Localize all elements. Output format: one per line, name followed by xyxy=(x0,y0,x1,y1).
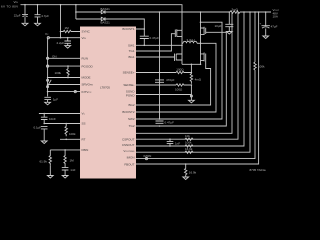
ground C3 xyxy=(45,102,51,105)
ground C6 xyxy=(62,176,68,179)
switch S1 xyxy=(47,79,49,81)
transistor M1 xyxy=(175,29,182,37)
capacitor CIN2 xyxy=(35,5,41,24)
svg-text:RT: RT xyxy=(82,138,86,142)
diode D1 feed A xyxy=(76,18,101,20)
svg-text:IMON: IMON xyxy=(144,154,152,158)
capacitor C8 boost2 xyxy=(156,121,164,123)
node junction dots on VIN rail xyxy=(24,4,26,6)
ground C9 xyxy=(226,32,232,35)
transistor M2 xyxy=(175,54,183,62)
svg-text:100k: 100k xyxy=(55,71,62,75)
wire SRVO pin xyxy=(48,84,80,86)
wire SW1 pin xyxy=(136,44,182,46)
svg-text:1nF: 1nF xyxy=(70,168,75,172)
resistor RS2 output sense xyxy=(230,11,240,14)
wire FBOUT bus xyxy=(136,12,259,164)
svg-text:CSNOUT: CSNOUT xyxy=(122,143,135,147)
svg-text:SENSE-: SENSE- xyxy=(123,83,134,87)
wire CSPOUT bus xyxy=(136,12,232,133)
svg-text:CSPOUT: CSPOUT xyxy=(122,137,135,141)
svg-text:LT8705: LT8705 xyxy=(100,86,110,90)
svg-text:SW2: SW2 xyxy=(128,117,135,121)
resistor RS1 sense xyxy=(190,64,192,84)
ground C2 xyxy=(65,46,71,49)
wire SS pin xyxy=(44,123,80,125)
resistor R3 xyxy=(65,124,67,137)
svg-text:SENSE+: SENSE+ xyxy=(123,71,135,75)
wire BG2 xyxy=(136,61,211,106)
svg-text:1M: 1M xyxy=(65,26,70,30)
inductor L1 xyxy=(183,41,197,43)
svg-text:FBOUT: FBOUT xyxy=(124,163,134,167)
node IMON terminal xyxy=(145,158,147,160)
svg-text:22µF: 22µF xyxy=(14,14,21,18)
svg-text:RUN: RUN xyxy=(82,57,89,61)
svg-text:61.9k: 61.9k xyxy=(40,160,48,164)
resistor R9 xyxy=(185,145,193,147)
wire VIN drop to left pins xyxy=(60,5,62,38)
svg-text:IMON: IMON xyxy=(127,156,135,160)
capacitor C7 sense filter xyxy=(155,80,164,82)
transistor M4 xyxy=(201,53,206,62)
ground CIN1 xyxy=(22,23,28,26)
ground C5 xyxy=(41,141,47,144)
op-amp U1 (controller IC LT8705 pink body) xyxy=(80,27,136,179)
svg-text:470pF: 470pF xyxy=(166,78,175,82)
resistor R5 xyxy=(64,150,66,165)
svg-text:BAS21: BAS21 xyxy=(101,20,111,24)
svg-text:MODE: MODE xyxy=(82,76,91,80)
svg-text:1M: 1M xyxy=(70,159,75,163)
capacitor CIN1 electrolytic xyxy=(22,5,28,24)
wire SW1 node vertical xyxy=(181,30,183,64)
ground C10 xyxy=(263,36,269,39)
svg-text:1nF: 1nF xyxy=(175,141,180,145)
capacitor C11 xyxy=(167,139,174,146)
svg-text:BG1: BG1 xyxy=(128,55,134,59)
capacitor C9 output xyxy=(225,12,233,32)
svg-text:+: + xyxy=(260,21,262,25)
svg-text:ON: ON xyxy=(52,54,57,58)
wire VIN rail xyxy=(21,5,183,31)
wire boost2 feed vertical xyxy=(159,12,161,119)
wire CSN pin xyxy=(136,84,176,86)
resistor R2 pull-up xyxy=(67,66,69,77)
wire MODE pin xyxy=(48,77,80,79)
capacitor C6 xyxy=(62,165,69,176)
svg-text:2.2µF: 2.2µF xyxy=(57,41,65,45)
capacitor C3 xyxy=(44,97,51,102)
svg-text:TG2: TG2 xyxy=(129,124,135,128)
resistor R7 xyxy=(176,84,191,86)
svg-text:0.47µF: 0.47µF xyxy=(150,36,160,40)
svg-text:4mΩ: 4mΩ xyxy=(195,78,202,82)
svg-text:SYNC: SYNC xyxy=(82,30,91,34)
svg-text:BG2: BG2 xyxy=(128,103,134,107)
resistor R10 xyxy=(185,151,193,153)
svg-text:0.1µF: 0.1µF xyxy=(34,126,42,130)
wire PGOOD pin xyxy=(48,65,80,67)
svg-text:3mΩ: 3mΩ xyxy=(232,7,239,11)
capacitor C10 electrolytic output xyxy=(262,12,270,36)
resistor R6 xyxy=(176,71,191,73)
wire CSP pin xyxy=(136,72,176,74)
wire PGND pin xyxy=(136,94,191,96)
svg-text:100k: 100k xyxy=(185,141,192,145)
ground R11 xyxy=(183,177,189,180)
wire RT pin xyxy=(60,138,80,140)
wire sources rail xyxy=(182,63,201,65)
svg-text:BOOST2: BOOST2 xyxy=(122,110,135,114)
svg-text:10A: 10A xyxy=(273,14,278,18)
wire bus5 xyxy=(136,70,255,159)
svg-text:FBIN: FBIN xyxy=(82,148,89,152)
capacitor CB1 boost xyxy=(140,36,149,45)
resistor R1 to SYNC pin xyxy=(61,30,81,32)
svg-text:47µF: 47µF xyxy=(271,24,278,28)
capacitor C4 xyxy=(41,114,48,124)
svg-text:BAS21: BAS21 xyxy=(101,7,111,11)
wire SW2 xyxy=(136,43,216,112)
svg-text:100k: 100k xyxy=(258,64,265,68)
wire FBIN pin xyxy=(50,149,80,151)
wire TG2 xyxy=(136,32,226,126)
wire BG1 pin xyxy=(136,56,175,58)
ground CIN2 xyxy=(35,23,41,26)
transistor M3 xyxy=(201,27,206,35)
svg-text:10k: 10k xyxy=(185,134,190,138)
wire RUN pin xyxy=(48,57,80,59)
wire CSNOUT bus xyxy=(136,12,238,139)
svg-text:16.9k: 16.9k xyxy=(185,147,193,151)
resistor R11 FB bottom xyxy=(185,164,187,177)
wire TG1 pin xyxy=(136,34,175,51)
svg-text:8705 TA01a: 8705 TA01a xyxy=(250,168,266,172)
capacitor C2 on VIN pin xyxy=(64,38,71,46)
svg-text:SW1: SW1 xyxy=(128,43,135,47)
svg-text:PGND: PGND xyxy=(126,93,136,97)
node VC terminal xyxy=(47,37,49,39)
svg-text:6V TO 80V: 6V TO 80V xyxy=(1,4,18,8)
svg-text:100Ω: 100Ω xyxy=(176,67,184,71)
wire BOOST2 xyxy=(136,22,222,119)
wire SW2 node vertical xyxy=(200,12,202,64)
svg-text:TG1: TG1 xyxy=(129,49,135,53)
resistor R8 xyxy=(185,138,193,140)
svg-text:BOOST1: BOOST1 xyxy=(122,27,135,31)
svg-text:100Ω: 100Ω xyxy=(175,87,183,91)
wire IMON bus xyxy=(136,12,250,152)
wire INTVCC pin xyxy=(48,91,80,93)
wire VC pin xyxy=(39,113,80,115)
svg-text:1µF: 1µF xyxy=(53,98,58,102)
wire BOOST1 pin xyxy=(136,29,144,36)
svg-text:10µF: 10µF xyxy=(215,24,222,28)
diode D2 xyxy=(76,11,101,13)
svg-text:4.7µF: 4.7µF xyxy=(41,14,49,18)
wire VOUT rail xyxy=(160,11,231,13)
svg-text:PGOOD: PGOOD xyxy=(82,64,94,68)
svg-text:100k: 100k xyxy=(69,132,76,136)
wire VOUTSNS bus xyxy=(136,12,244,146)
svg-text:10nF: 10nF xyxy=(49,117,56,121)
svg-text:16.9k: 16.9k xyxy=(189,170,197,174)
svg-text:0.47µF: 0.47µF xyxy=(165,121,175,125)
resistor R4 divider xyxy=(49,150,51,166)
ground R4 xyxy=(47,166,53,179)
wire left distribution vertical xyxy=(47,38,49,97)
ground RS1 xyxy=(189,100,195,103)
capacitor C5 xyxy=(41,127,48,141)
wire VIN pin xyxy=(48,37,80,39)
svg-text:SS: SS xyxy=(82,122,86,126)
resistor R12 FB top xyxy=(254,62,256,70)
svg-text:3.3µH: 3.3µH xyxy=(187,38,195,42)
wire boost feed B from VIN xyxy=(75,5,77,19)
